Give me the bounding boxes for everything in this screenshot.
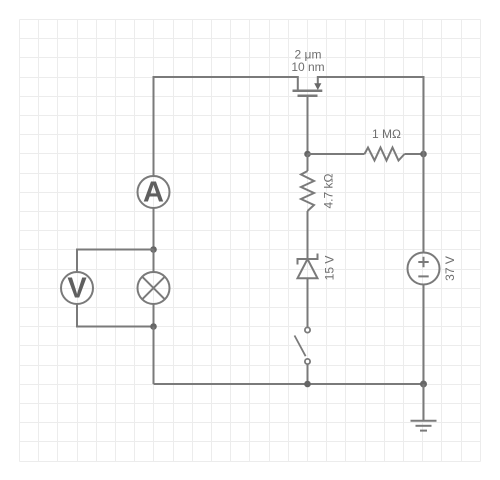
label "10 nm" MOSFET length xyxy=(291,60,324,74)
label "15 V" (rotated) xyxy=(323,256,337,281)
wire left rail lower: node B down to bottom wire xyxy=(153,327,155,385)
label "1 MΩ" xyxy=(372,127,401,141)
node C junction dot xyxy=(304,151,311,158)
node E junction dot xyxy=(304,381,311,388)
svg-text:37 V: 37 V xyxy=(443,256,457,281)
wire ammeter to node A xyxy=(153,208,155,250)
node A junction dot xyxy=(150,246,157,253)
svg-text:15 V: 15 V xyxy=(323,256,337,281)
wire node F to ground xyxy=(423,384,425,421)
switch SW1 (open SPST) xyxy=(295,327,311,364)
wire node D to voltage source xyxy=(423,154,425,253)
wire bottom rail xyxy=(154,383,424,385)
wire top-right: from MOSFET drain arrow to right rail corner xyxy=(318,76,424,78)
wire node A to lamp xyxy=(153,250,155,273)
zener diode 15 V xyxy=(298,254,318,279)
resistor 1 MΩ (horizontal zigzag) xyxy=(365,148,405,161)
svg-text:V: V xyxy=(67,273,87,305)
svg-text:A: A xyxy=(143,176,164,208)
node D junction dot xyxy=(420,151,427,158)
node B junction dot xyxy=(150,323,157,330)
resistor 4.7 kΩ (vertical zigzag) xyxy=(301,171,314,211)
label "4.7 kΩ" (rotated) xyxy=(322,173,336,208)
label "2 um" MOSFET width xyxy=(295,48,322,62)
wire node C to resistor 1 MΩ xyxy=(308,153,365,155)
node F junction dot xyxy=(420,381,427,388)
voltage source 37 V xyxy=(408,253,440,285)
wire top-left: from left rail corner to MOSFET source xyxy=(154,76,298,78)
svg-text:10 nm: 10 nm xyxy=(291,60,324,74)
wire lamp to node B xyxy=(153,304,155,327)
label "37 V" (rotated) xyxy=(443,256,457,281)
wire node A to voltmeter branch xyxy=(77,250,154,273)
voltmeter V xyxy=(61,272,93,305)
wire left rail upper: corner down to ammeter xyxy=(153,76,155,176)
lamp (circle with cross) xyxy=(138,272,170,304)
ground xyxy=(411,421,437,431)
wire resistor 1 MΩ to node D xyxy=(405,153,424,155)
transistor M1 (n-MOSFET) xyxy=(293,76,323,96)
wire right rail upper: top corner down to node D xyxy=(423,76,425,154)
wire node C to resistor 4.7 kΩ xyxy=(307,154,309,171)
wire switch to node E xyxy=(307,364,309,384)
svg-text:1 MΩ: 1 MΩ xyxy=(372,127,401,141)
wire gate to node C xyxy=(307,96,309,154)
wire zener to switch xyxy=(307,278,309,327)
svg-text:4.7 kΩ: 4.7 kΩ xyxy=(322,173,336,208)
wire voltage source to node F xyxy=(423,285,425,385)
wire resistor 4.7 kΩ to zener xyxy=(307,211,309,259)
wire voltmeter to node B xyxy=(77,304,154,327)
ammeter A xyxy=(138,176,170,208)
